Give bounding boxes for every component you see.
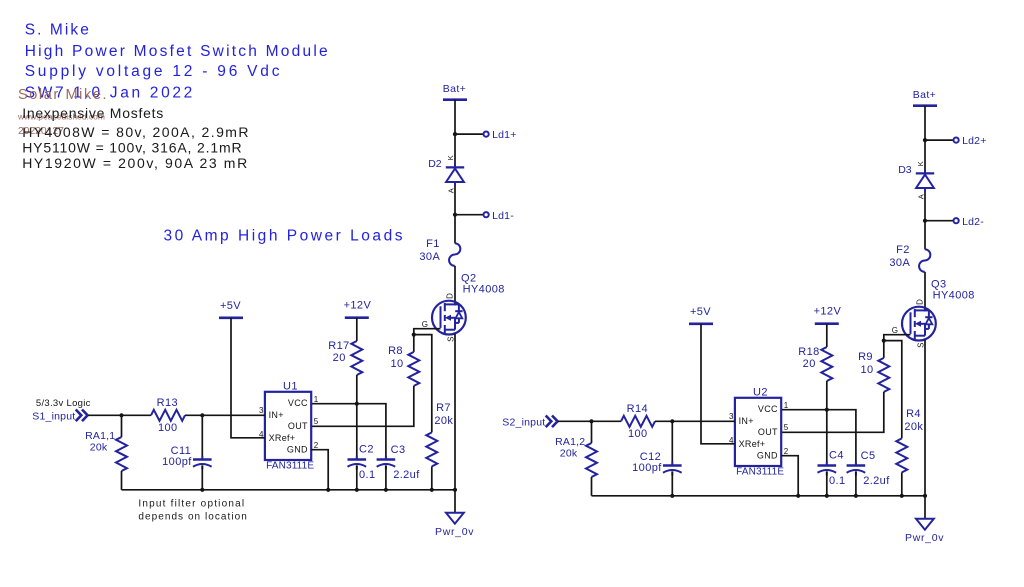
svg-text:HY4008W = 80v, 200A, 2.9mR: HY4008W = 80v, 200A, 2.9mR — [22, 124, 250, 140]
svg-text:OUT: OUT — [758, 427, 778, 437]
svg-text:D: D — [445, 293, 454, 299]
svg-text:Solar Mike.: Solar Mike. — [18, 87, 108, 103]
svg-text:GND: GND — [287, 444, 308, 454]
svg-text:2.2uf: 2.2uf — [393, 469, 420, 481]
svg-text:IN+: IN+ — [739, 416, 754, 426]
svg-text:20k: 20k — [434, 415, 453, 427]
svg-text:0.1: 0.1 — [829, 475, 846, 487]
svg-text:VCC: VCC — [758, 404, 778, 414]
svg-text:20k: 20k — [560, 447, 578, 459]
svg-text:C11: C11 — [171, 445, 192, 457]
svg-text:K: K — [916, 161, 925, 166]
svg-text:Ld1-: Ld1- — [492, 210, 514, 222]
svg-text:10: 10 — [860, 364, 873, 376]
svg-text:R7: R7 — [436, 402, 451, 414]
svg-text:C5: C5 — [861, 450, 876, 462]
svg-text:GND: GND — [757, 450, 778, 460]
svg-text:RA1,1: RA1,1 — [85, 430, 115, 442]
svg-text:30A: 30A — [419, 251, 440, 263]
svg-text:IN+: IN+ — [269, 410, 284, 420]
svg-text:100: 100 — [158, 422, 178, 434]
svg-text:1: 1 — [784, 401, 789, 410]
svg-text:HY5110W = 100v, 316A, 2.1mR: HY5110W = 100v, 316A, 2.1mR — [22, 139, 242, 155]
svg-text:R17: R17 — [328, 340, 349, 352]
svg-text:10: 10 — [390, 358, 403, 370]
svg-text:2.2uf: 2.2uf — [863, 475, 890, 487]
svg-text:U1: U1 — [283, 380, 298, 392]
svg-text:S2_input: S2_input — [502, 416, 545, 428]
svg-text:0.1: 0.1 — [359, 469, 376, 481]
svg-text:D3: D3 — [898, 164, 912, 176]
svg-text:Inexpensive Mosfets: Inexpensive Mosfets — [22, 105, 164, 121]
svg-text:Supply voltage 12 - 96 Vdc: Supply voltage 12 - 96 Vdc — [25, 63, 283, 80]
svg-text:Pwr_0v: Pwr_0v — [905, 532, 944, 544]
svg-text:5/3.3v Logic: 5/3.3v Logic — [36, 398, 91, 409]
svg-text:Pwr_0v: Pwr_0v — [435, 526, 474, 538]
svg-text:C12: C12 — [640, 451, 661, 463]
svg-text:FAN3111E: FAN3111E — [736, 467, 784, 478]
svg-text:depends on location: depends on location — [138, 512, 247, 523]
svg-text:Ld2+: Ld2+ — [962, 135, 986, 147]
svg-text:3: 3 — [729, 412, 734, 421]
svg-text:K: K — [446, 155, 455, 160]
svg-text:HY4008: HY4008 — [933, 290, 975, 302]
svg-text:+5V: +5V — [690, 306, 711, 318]
svg-text:FAN3111E: FAN3111E — [266, 461, 314, 472]
svg-text:D2: D2 — [428, 158, 442, 170]
svg-text:5: 5 — [784, 423, 789, 432]
svg-text:20k: 20k — [90, 441, 108, 453]
svg-text:5: 5 — [314, 417, 319, 426]
svg-text:20: 20 — [333, 352, 346, 364]
svg-text:HY4008: HY4008 — [463, 284, 505, 296]
svg-text:1: 1 — [314, 395, 319, 404]
svg-text:R9: R9 — [858, 351, 873, 363]
svg-text:OUT: OUT — [288, 421, 308, 431]
svg-text:S1_input: S1_input — [32, 410, 75, 422]
svg-text:+12V: +12V — [814, 306, 842, 318]
svg-text:C4: C4 — [829, 450, 844, 462]
svg-text:C2: C2 — [359, 444, 374, 456]
svg-text:Ld1+: Ld1+ — [492, 129, 516, 141]
svg-text:S. Mike: S. Mike — [25, 22, 91, 39]
svg-text:XRef+: XRef+ — [739, 439, 766, 449]
svg-text:U2: U2 — [753, 386, 768, 398]
svg-text:30 Amp High Power Loads: 30 Amp High Power Loads — [164, 228, 406, 245]
svg-text:100: 100 — [628, 428, 648, 440]
svg-text:R18: R18 — [798, 346, 819, 358]
svg-text:R14: R14 — [627, 403, 648, 415]
svg-text:30A: 30A — [889, 257, 910, 269]
svg-text:2: 2 — [784, 447, 789, 456]
svg-text:100pf: 100pf — [632, 462, 662, 474]
svg-text:Ld2-: Ld2- — [962, 216, 984, 228]
svg-text:+5V: +5V — [220, 300, 241, 312]
svg-text:20: 20 — [803, 358, 816, 370]
svg-text:F1: F1 — [426, 238, 440, 250]
svg-text:High Power Mosfet Switch Modul: High Power Mosfet Switch Module — [25, 43, 330, 60]
svg-text:VCC: VCC — [288, 398, 308, 408]
svg-text:R8: R8 — [388, 345, 403, 357]
svg-text:XRef+: XRef+ — [269, 433, 296, 443]
svg-text:F2: F2 — [896, 244, 910, 256]
svg-text:R4: R4 — [906, 408, 921, 420]
svg-text:D: D — [915, 299, 924, 305]
svg-text:S: S — [446, 337, 455, 342]
svg-text:+12V: +12V — [344, 300, 372, 312]
svg-text:C3: C3 — [391, 444, 406, 456]
svg-text:3: 3 — [259, 406, 264, 415]
svg-text:Bat+: Bat+ — [443, 83, 467, 95]
svg-text:Bat+: Bat+ — [913, 89, 937, 101]
svg-text:2: 2 — [314, 441, 319, 450]
svg-text:RA1,2: RA1,2 — [555, 436, 585, 448]
svg-text:R13: R13 — [157, 397, 178, 409]
svg-text:20k: 20k — [904, 421, 923, 433]
svg-text:100pf: 100pf — [162, 456, 192, 468]
svg-text:Input filter optional: Input filter optional — [138, 499, 245, 510]
svg-text:S: S — [916, 343, 925, 348]
svg-text:HY1920W = 200v, 90A 23 mR: HY1920W = 200v, 90A 23 mR — [22, 155, 249, 171]
